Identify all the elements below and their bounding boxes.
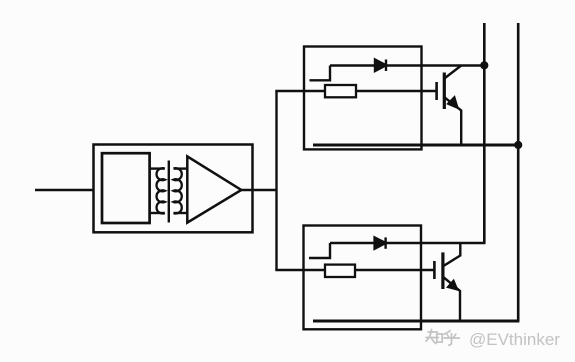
wire: driver output to branch node: [241, 189, 276, 191]
op-amp buffer A1 (triangle): [187, 156, 241, 222]
wire: DC bus line 1 (collector rail): [483, 23, 486, 243]
driver module U1 outer box: [94, 145, 253, 233]
transistor Q2 emitter arrow: [447, 280, 458, 290]
gate drive box (bottom channel): [304, 226, 422, 330]
svg-text:@EVthinker: @EVthinker: [469, 330, 560, 349]
wire: primary bottom stub: [150, 212, 165, 214]
wire: top desat stub: [310, 66, 331, 81]
diode D1 (top desat diode): [375, 60, 386, 72]
watermark: 乎 glyph: [444, 331, 460, 346]
wire: input to isolated driver: [35, 189, 94, 191]
wire: bottom desat/collector line: [330, 242, 486, 244]
node: junction dot on bus 2: [514, 141, 522, 149]
gate drive box (top channel): [304, 47, 422, 150]
transistor Q2 collector lead: [443, 243, 460, 266]
resistor R1 (top gate resistor): [325, 85, 356, 97]
wire: top gate line R1 to Q1 gate: [356, 90, 436, 92]
wire: bottom emitter rail: [313, 320, 519, 323]
transistor Q1 emitter arrow: [447, 96, 458, 108]
wire: top gate line left of R1: [275, 90, 325, 92]
wire: bottom gate line R2 to Q2 gate: [355, 269, 434, 271]
wire: branch vertical (gate feed to both channels): [275, 91, 277, 270]
transistor Q2 (bottom IGBT) gate bar: [433, 261, 436, 279]
transformer T1 secondary winding: [173, 168, 181, 213]
transistor Q1 (top IGBT) gate bar: [435, 82, 438, 100]
resistor R2 (bottom gate resistor): [325, 265, 355, 277]
wire: bottom gate line left of R2: [275, 269, 325, 271]
transistor Q1 collector lead: [444, 66, 460, 79]
wire: top desat/collector line: [330, 64, 484, 66]
wire: primary top stub: [150, 167, 165, 169]
transformer T1 primary winding: [157, 168, 165, 213]
diode D2 (bottom desat diode): [375, 237, 386, 248]
transistor Q2 emitter lead: [443, 277, 460, 321]
watermark: 知 glyph: [426, 330, 442, 344]
wire: DC bus line 2 (emitter/phase rail): [517, 23, 520, 321]
transistor Q1 body bar: [443, 73, 446, 110]
wire: secondary top stub: [174, 167, 188, 169]
wire: bottom desat stub: [309, 243, 330, 258]
driver input stage block (inner rectangle): [102, 153, 150, 223]
transformer T1 core: [168, 161, 170, 223]
transistor Q2 body bar: [441, 252, 444, 289]
wire: secondary bottom stub: [174, 212, 188, 214]
transistor Q1 emitter lead: [444, 97, 461, 145]
node: junction dot on bus 1: [480, 61, 488, 69]
wire: top emitter rail: [313, 144, 518, 147]
